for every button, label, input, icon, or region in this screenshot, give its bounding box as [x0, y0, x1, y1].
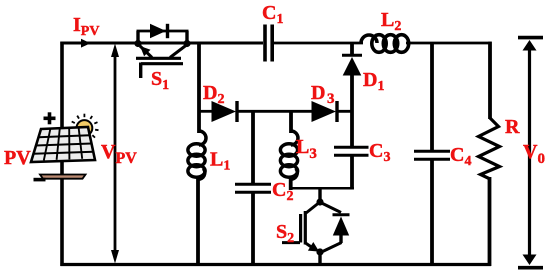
wire C2 to bottom rail [251, 193, 255, 266]
V_PV measuring arrow line [114, 49, 117, 257]
PV base stand [40, 175, 86, 179]
capacitor C3 branch upper wire [350, 111, 354, 146]
inductor L1 [188, 131, 206, 177]
wire lower bus L3-S2-C3 [289, 187, 354, 190]
switch S2 stem from bus [318, 188, 321, 203]
PV minus terminal [34, 178, 46, 182]
inductor L3 [280, 131, 298, 177]
PV sun [70, 114, 98, 142]
capacitor C3 [334, 146, 369, 149]
capacitor C4 [414, 150, 450, 153]
wire top rail C1-to-L2 segment [274, 42, 364, 45]
wire middle bus D2 to D3 [237, 110, 312, 113]
wire left rail [60, 42, 64, 266]
capacitor C4 branch upper wire [430, 43, 434, 150]
wire L1 to bottom rail [198, 169, 205, 180]
svg-text:PV: PV [4, 147, 31, 169]
wire top rail left segment [60, 42, 263, 45]
wire top rail L2-to-corner segment [406, 42, 492, 45]
PV panel [31, 127, 95, 162]
wire R to bottom rail [488, 177, 492, 266]
switch S1 transistor [134, 40, 190, 78]
wire drop from top rail to L1 [197, 43, 201, 133]
switch S1 diode branch [137, 24, 189, 44]
wire D1 to middle bus [350, 75, 354, 111]
arrow I_PV on top rail [81, 39, 91, 48]
resistor R zigzag [479, 118, 500, 179]
switch S2 diode [320, 202, 350, 253]
diode D1 branch wire upper [350, 43, 354, 54]
wire middle bus D3 to D1 node [337, 110, 354, 113]
diode D3 [312, 101, 337, 122]
diode D2 [212, 101, 237, 122]
wire S2 to bottom rail [318, 252, 321, 266]
inductor L2 [361, 35, 409, 53]
capacitor C1 [263, 25, 267, 62]
PV plus terminal [44, 112, 56, 124]
capacitor C2 [235, 183, 271, 186]
capacitor C2 branch upper wire [251, 111, 255, 183]
resistor R upper wire [488, 42, 492, 119]
diode D1 [342, 54, 362, 57]
V0 measuring arrow [518, 38, 543, 268]
switch S2 transistor [282, 198, 324, 255]
wire L3 stub from bus [289, 111, 293, 133]
wire bottom rail [60, 263, 491, 266]
wire C3 to lower bus [350, 156, 354, 190]
svg-text:R: R [505, 116, 520, 138]
wire middle bus left part [199, 110, 212, 113]
wire L3 to lower bus [291, 169, 298, 180]
wire C4 to bottom rail [430, 160, 434, 266]
